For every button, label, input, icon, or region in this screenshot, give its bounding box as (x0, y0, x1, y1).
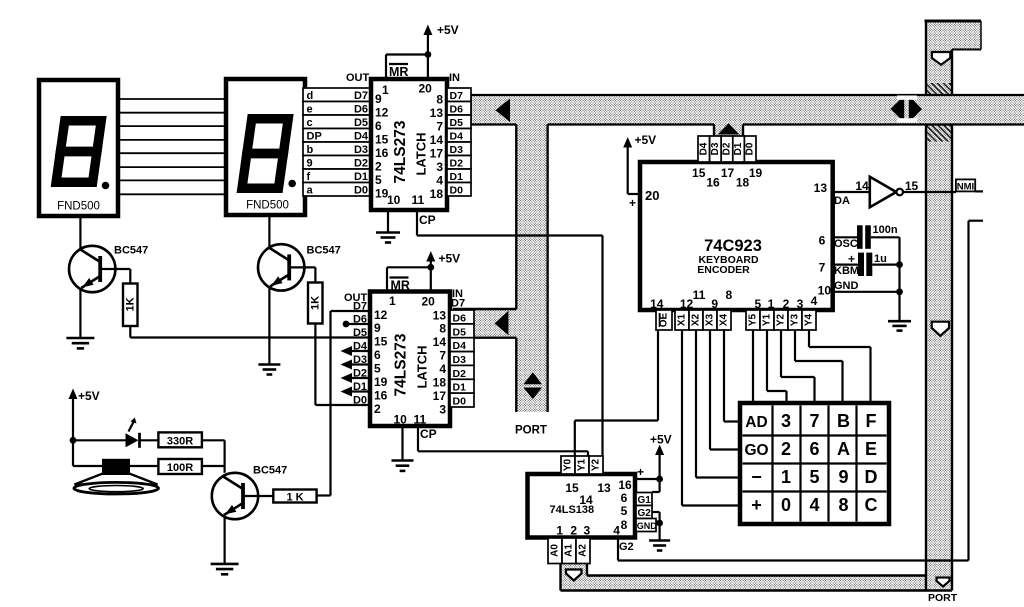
svg-text:D1: D1 (453, 382, 467, 394)
svg-text:4: 4 (439, 362, 446, 376)
svg-text:X2: X2 (691, 313, 702, 326)
svg-text:e: e (307, 104, 313, 116)
svg-text:D1: D1 (354, 171, 368, 183)
svg-text:1: 1 (768, 297, 775, 311)
svg-text:2: 2 (375, 159, 382, 173)
svg-text:D3: D3 (450, 144, 464, 156)
svg-text:+: + (629, 196, 636, 210)
svg-text:16: 16 (374, 389, 388, 403)
svg-text:6: 6 (621, 491, 628, 505)
svg-text:D0: D0 (745, 142, 756, 155)
svg-text:5: 5 (375, 173, 382, 187)
svg-text:16: 16 (618, 478, 632, 492)
svg-text:GND: GND (834, 280, 859, 292)
svg-text:14: 14 (430, 133, 444, 147)
svg-text:330R: 330R (167, 435, 193, 447)
svg-text:PORT: PORT (928, 592, 958, 604)
svg-text:D2: D2 (450, 158, 464, 170)
svg-text:BC547: BC547 (114, 245, 148, 257)
svg-text:A2: A2 (578, 544, 589, 557)
svg-text:14: 14 (855, 179, 869, 193)
svg-text:14: 14 (650, 297, 664, 311)
svg-text:D4: D4 (450, 131, 464, 143)
svg-text:11: 11 (414, 413, 427, 427)
svg-text:17: 17 (430, 146, 444, 160)
svg-text:16: 16 (375, 146, 389, 160)
svg-text:Y3: Y3 (790, 313, 801, 326)
svg-text:D7: D7 (450, 90, 464, 102)
svg-text:18: 18 (430, 187, 444, 201)
svg-text:19: 19 (374, 375, 388, 389)
svg-text:−: − (751, 467, 762, 487)
svg-text:GND: GND (637, 521, 658, 531)
svg-text:D7: D7 (354, 90, 368, 102)
svg-text:7: 7 (819, 261, 826, 275)
svg-text:D1: D1 (733, 142, 744, 155)
svg-text:20: 20 (419, 82, 433, 96)
svg-text:20: 20 (422, 295, 436, 309)
svg-text:5: 5 (621, 504, 628, 518)
svg-text:PORT: PORT (515, 425, 547, 437)
svg-text:17: 17 (721, 166, 735, 180)
svg-text:100n: 100n (873, 224, 898, 236)
svg-text:8: 8 (436, 92, 443, 106)
svg-text:3: 3 (797, 297, 804, 311)
svg-text:d: d (307, 90, 314, 102)
svg-text:MR: MR (389, 65, 408, 79)
svg-text:Y2: Y2 (776, 313, 787, 326)
svg-text:10: 10 (394, 413, 408, 427)
svg-text:G1: G1 (638, 495, 652, 506)
svg-text:G2: G2 (619, 541, 634, 553)
svg-text:17: 17 (433, 389, 447, 403)
svg-text:12: 12 (375, 105, 389, 119)
svg-text:12: 12 (374, 308, 388, 322)
svg-text:5: 5 (374, 362, 381, 376)
svg-text:CP: CP (420, 427, 437, 441)
svg-text:3: 3 (439, 403, 446, 417)
svg-text:C: C (865, 495, 878, 515)
svg-text:5: 5 (809, 467, 819, 487)
svg-text:X1: X1 (677, 313, 688, 326)
svg-text:6: 6 (374, 348, 381, 362)
svg-text:+5V: +5V (650, 433, 672, 447)
svg-text:MR: MR (391, 279, 410, 293)
svg-text:D6: D6 (354, 104, 368, 116)
svg-text:D1: D1 (450, 171, 464, 183)
svg-text:1 K: 1 K (286, 492, 303, 504)
svg-text:LATCH: LATCH (415, 345, 430, 388)
svg-text:+5V: +5V (437, 23, 459, 37)
svg-text:13: 13 (597, 481, 611, 495)
svg-text:Y5: Y5 (748, 313, 759, 326)
svg-text:2: 2 (570, 524, 577, 538)
svg-text:1u: 1u (874, 253, 887, 265)
svg-text:E: E (865, 439, 877, 459)
svg-text:D3: D3 (710, 142, 721, 155)
svg-text:D2: D2 (453, 368, 467, 380)
svg-text:D0: D0 (450, 185, 464, 197)
svg-text:11: 11 (412, 193, 425, 207)
svg-text:LATCH: LATCH (414, 132, 429, 175)
svg-text:1K: 1K (124, 297, 136, 311)
svg-text:7: 7 (809, 411, 819, 431)
svg-text:14: 14 (433, 335, 447, 349)
svg-text:B: B (837, 411, 850, 431)
svg-text:D2: D2 (722, 142, 733, 155)
svg-text:Y2: Y2 (591, 458, 602, 471)
svg-text:OUT: OUT (346, 72, 370, 84)
svg-text:IN: IN (449, 72, 460, 84)
svg-text:DA: DA (834, 195, 850, 207)
svg-text:74C923: 74C923 (704, 237, 762, 255)
svg-text:DP: DP (307, 131, 322, 143)
svg-text:13: 13 (430, 106, 444, 120)
svg-text:FND500: FND500 (57, 201, 100, 213)
svg-text:D4: D4 (698, 142, 709, 155)
svg-text:Y0: Y0 (563, 458, 574, 471)
svg-text:4: 4 (809, 495, 819, 515)
svg-text:18: 18 (736, 176, 750, 190)
svg-text:9: 9 (375, 92, 382, 106)
svg-text:X3: X3 (705, 313, 716, 326)
svg-text:1K: 1K (309, 296, 321, 310)
svg-text:2: 2 (374, 402, 381, 416)
svg-text:20: 20 (645, 188, 659, 203)
svg-text:D6: D6 (453, 312, 467, 324)
svg-text:15: 15 (375, 132, 389, 146)
svg-text:D3: D3 (353, 354, 367, 366)
svg-text:AD: AD (745, 414, 767, 431)
svg-text:4: 4 (811, 294, 818, 308)
svg-text:A: A (837, 439, 850, 459)
svg-text:74LS138: 74LS138 (550, 504, 595, 516)
svg-text:8: 8 (838, 495, 848, 515)
svg-text:18: 18 (433, 376, 447, 390)
svg-text:3: 3 (781, 411, 791, 431)
svg-text:c: c (307, 117, 313, 129)
svg-text:+: + (751, 495, 762, 515)
svg-text:Y4: Y4 (804, 313, 815, 326)
svg-text:OSC: OSC (834, 238, 858, 250)
svg-text:19: 19 (749, 166, 763, 180)
svg-text:0: 0 (781, 495, 791, 515)
svg-text:16: 16 (706, 176, 720, 190)
svg-text:D5: D5 (354, 117, 368, 129)
svg-text:74LS273: 74LS273 (393, 333, 410, 396)
svg-text:+5V: +5V (635, 133, 657, 147)
svg-text:9: 9 (307, 158, 313, 170)
svg-text:NMI: NMI (957, 181, 974, 192)
svg-text:D3: D3 (453, 354, 467, 366)
svg-text:D2: D2 (353, 368, 367, 380)
svg-text:D7: D7 (451, 298, 465, 310)
svg-text:G2: G2 (638, 508, 652, 519)
svg-text:Y1: Y1 (762, 313, 773, 326)
svg-text:X4: X4 (719, 313, 730, 326)
svg-text:4: 4 (613, 524, 620, 538)
svg-text:D3: D3 (354, 144, 368, 156)
svg-text:13: 13 (433, 309, 447, 323)
svg-text:D7: D7 (353, 301, 367, 313)
svg-text:13: 13 (814, 181, 828, 195)
svg-text:4: 4 (436, 173, 443, 187)
svg-text:D5: D5 (450, 117, 464, 129)
svg-text:D0: D0 (354, 185, 368, 197)
svg-text:+5V: +5V (439, 252, 461, 266)
svg-text:D4: D4 (354, 131, 369, 143)
svg-text:b: b (307, 144, 314, 156)
svg-text:D4: D4 (453, 340, 467, 352)
svg-text:+: + (637, 465, 644, 479)
svg-text:BC547: BC547 (253, 465, 287, 477)
svg-text:11: 11 (693, 288, 706, 302)
svg-text:15: 15 (692, 166, 706, 180)
svg-text:D6: D6 (353, 314, 367, 326)
svg-text:12: 12 (680, 297, 694, 311)
svg-text:ENCODER: ENCODER (697, 264, 750, 276)
svg-text:6: 6 (819, 234, 826, 248)
svg-text:3: 3 (436, 160, 443, 174)
svg-text:1: 1 (556, 524, 563, 538)
svg-text:6: 6 (375, 119, 382, 133)
svg-text:15: 15 (374, 335, 388, 349)
svg-text:1: 1 (781, 467, 791, 487)
svg-text:f: f (307, 171, 311, 183)
svg-text:9: 9 (374, 321, 381, 335)
svg-text:D5: D5 (453, 326, 467, 338)
svg-text:6: 6 (809, 439, 819, 459)
svg-text:5: 5 (754, 297, 761, 311)
svg-text:F: F (866, 411, 877, 431)
svg-text:8: 8 (725, 288, 732, 302)
svg-text:GO: GO (744, 442, 768, 459)
svg-text:D1: D1 (353, 381, 367, 393)
svg-text:D0: D0 (453, 396, 467, 408)
svg-text:A1: A1 (564, 544, 575, 557)
svg-text:Y1: Y1 (577, 458, 588, 471)
svg-text:a: a (307, 185, 314, 197)
svg-text:8: 8 (621, 518, 628, 532)
svg-text:D6: D6 (450, 104, 464, 116)
svg-text:7: 7 (436, 119, 443, 133)
svg-text:3: 3 (583, 524, 590, 538)
svg-text:1: 1 (382, 83, 389, 97)
svg-text:FND500: FND500 (246, 200, 289, 212)
svg-text:KBM: KBM (834, 265, 859, 277)
svg-text:D0: D0 (353, 395, 367, 407)
svg-text:10: 10 (818, 283, 832, 297)
svg-text:15: 15 (565, 481, 579, 495)
svg-text:BC547: BC547 (307, 245, 341, 257)
svg-text:D4: D4 (353, 341, 368, 353)
svg-text:8: 8 (439, 322, 446, 336)
svg-text:9: 9 (711, 297, 718, 311)
svg-text:10: 10 (387, 193, 401, 207)
svg-text:7: 7 (439, 349, 446, 363)
svg-text:D2: D2 (354, 158, 368, 170)
svg-text:CP: CP (419, 213, 436, 227)
svg-text:A0: A0 (550, 544, 561, 557)
svg-text:74LS273: 74LS273 (392, 120, 409, 183)
svg-text:100R: 100R (167, 462, 193, 474)
svg-text:+5V: +5V (78, 389, 100, 403)
svg-text:9: 9 (838, 467, 848, 487)
svg-text:1: 1 (389, 294, 396, 308)
svg-text:2: 2 (783, 297, 790, 311)
svg-text:D5: D5 (353, 327, 367, 339)
svg-text:2: 2 (781, 439, 791, 459)
svg-text:D: D (865, 467, 878, 487)
